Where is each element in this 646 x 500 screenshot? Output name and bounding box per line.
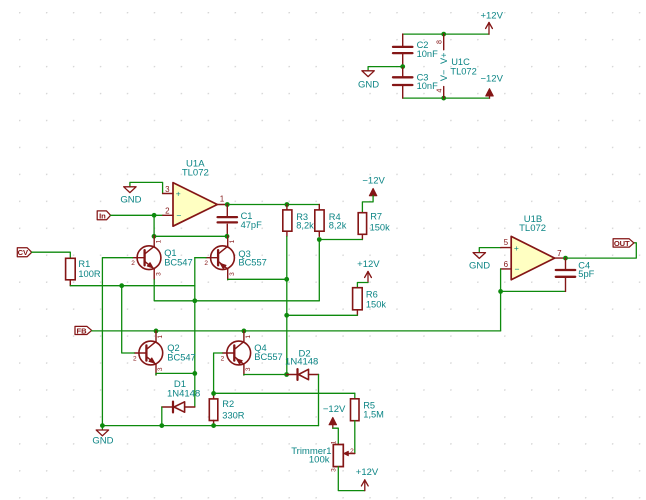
junction Q2 emitter D1 (192, 371, 197, 376)
junction R2 bottom (211, 423, 216, 428)
port OUT (613, 239, 634, 248)
svg-text:TL072: TL072 (450, 66, 476, 76)
junction collector rail right (225, 234, 230, 239)
wire R6 bottom (287, 314, 358, 316)
pin 7 U1B (555, 249, 564, 258)
resistor R1 (66, 258, 76, 285)
svg-text:3: 3 (245, 367, 252, 371)
junction U1B pin6 C4 (498, 289, 503, 294)
pin 1 Q3 (229, 239, 236, 243)
svg-text:1: 1 (157, 335, 164, 339)
svg-text:BC547: BC547 (164, 258, 192, 268)
svg-text:2: 2 (221, 355, 225, 362)
wire In-node down (153, 215, 155, 236)
wire Q3 base leg (195, 258, 206, 407)
wire R4-R7 bottom (319, 239, 362, 241)
pin 6 U1B (501, 260, 520, 274)
svg-text:OUT: OUT (614, 239, 630, 248)
wire Q1 base to ground rail (102, 258, 132, 426)
svg-text:GND: GND (120, 195, 141, 206)
pin 1 Trimmer1 (330, 440, 337, 444)
wire trimmer to +12V (338, 467, 365, 491)
wire U1B output (564, 243, 636, 258)
svg-text:5: 5 (504, 238, 509, 247)
svg-text:8,2k: 8,2k (296, 220, 314, 230)
label U1B (519, 214, 546, 234)
label Q3 (238, 249, 266, 268)
junction R6 bottom (284, 313, 289, 318)
wire -12V to R7 (362, 196, 373, 213)
pin 1 Q2 (157, 335, 164, 339)
pin 2 Q3 (204, 260, 208, 267)
power -12V symbol R7 (362, 175, 385, 196)
label R3 (296, 212, 314, 230)
svg-text:+12V: +12V (356, 467, 379, 478)
capacitor C2 (393, 34, 412, 67)
wire D2 anode to ground rail (318, 375, 320, 426)
port FB (75, 326, 92, 335)
svg-text:3: 3 (165, 185, 170, 194)
diode D2 (287, 369, 319, 380)
junction Q3 emitter (284, 277, 289, 282)
op-amp U1B (511, 236, 554, 279)
svg-text:V−: V− (439, 70, 449, 82)
junction Q4 emitter D2 (284, 372, 289, 377)
capacitor C4 (556, 258, 575, 291)
svg-text:GND: GND (469, 260, 490, 271)
pin 2 Q2 (133, 355, 137, 362)
svg-text:+12V: +12V (357, 259, 380, 270)
label R7 (370, 211, 391, 232)
label Q1 (164, 248, 192, 268)
svg-text:1,5M: 1,5M (363, 410, 384, 420)
svg-text:330R: 330R (222, 410, 245, 420)
svg-text:R1: R1 (78, 259, 90, 269)
pin 3 Q3 (229, 272, 236, 276)
power -12V symbol trimmer (323, 404, 346, 428)
label C4 (578, 260, 594, 279)
power +12V symbol trimmer (356, 467, 379, 491)
ground GND U1A pin3 (120, 182, 162, 205)
junction R4 bottom (317, 237, 322, 242)
pin 1 U1A (217, 195, 226, 205)
label Trimmer1 (291, 446, 331, 466)
power -12V symbol top (480, 74, 503, 99)
svg-text:R6: R6 (366, 289, 378, 299)
label R6 (366, 289, 387, 309)
wire Q1 emitter down (154, 280, 319, 301)
wire R2 to R5 (214, 392, 355, 394)
svg-text:−12V: −12V (323, 404, 346, 415)
resistor R2 (209, 393, 218, 425)
label U1C (450, 57, 476, 76)
label R1 (78, 259, 101, 279)
wire CV to R1 (32, 252, 71, 258)
wire -12V to trimmer (333, 428, 339, 444)
label R5 (363, 401, 384, 420)
svg-text:6: 6 (504, 260, 509, 269)
label C1 (241, 211, 263, 230)
wire C4 bottom (501, 290, 566, 292)
svg-text:100k: 100k (309, 455, 330, 466)
pin name V- U1C (439, 70, 449, 82)
junction D1 ground (159, 423, 164, 428)
wire -12V bottom rail (403, 97, 490, 99)
svg-text:TL072: TL072 (182, 168, 209, 179)
svg-text:Q2: Q2 (167, 343, 179, 353)
resistor R4 (315, 205, 324, 237)
label Q4 (254, 343, 282, 362)
svg-text:1N4148: 1N4148 (285, 357, 318, 368)
junction R2 top (211, 391, 216, 396)
junction In-node (152, 213, 157, 218)
transistor Q2 (134, 331, 162, 375)
resistor R7 (358, 213, 366, 240)
wire +12V top rail (403, 33, 489, 35)
svg-text:150k: 150k (370, 223, 391, 233)
svg-text:100R: 100R (78, 269, 101, 279)
pin 2 Trimmer1 (350, 448, 354, 455)
wire Q2 emitter (156, 373, 195, 375)
svg-text:−12V: −12V (362, 175, 385, 186)
svg-text:R7: R7 (370, 211, 382, 221)
wire collector rail (154, 235, 227, 237)
transistor Q3 (206, 236, 234, 280)
svg-text:−: − (176, 210, 181, 220)
svg-text:V+: V+ (439, 53, 449, 65)
op-amp U1C power pin 4 (435, 87, 444, 99)
resistor R6 (353, 288, 363, 316)
label C2 (417, 40, 439, 59)
svg-text:1: 1 (220, 195, 225, 204)
junction C2-C3-GND (400, 64, 405, 69)
junction bottom rail pin4 (441, 96, 446, 101)
svg-text:BC557: BC557 (254, 352, 282, 362)
capacitor C1 (218, 205, 237, 237)
svg-text:1: 1 (330, 440, 337, 444)
svg-text:BC547: BC547 (167, 353, 195, 363)
label D1 (167, 379, 200, 400)
wire +12V to R6 (357, 283, 368, 288)
label R2 (222, 399, 245, 420)
wire ground rail bottom (102, 425, 318, 427)
label D2 (285, 349, 318, 368)
svg-text:1N4148: 1N4148 (167, 389, 200, 400)
pin 3 Q4 (245, 367, 252, 371)
transistor Q4 (222, 331, 250, 375)
svg-text:47pF: 47pF (241, 220, 263, 230)
ground GND top section (358, 71, 379, 91)
svg-text:8: 8 (435, 40, 444, 44)
op-amp U1C power pin 8 (435, 34, 444, 50)
pin 3 U1A (163, 185, 181, 199)
svg-text:+12V: +12V (480, 10, 503, 21)
svg-text:GND: GND (92, 435, 113, 446)
svg-text:−12V: −12V (480, 74, 503, 85)
ground GND U1B pin5 (469, 248, 501, 272)
wire Q4 emitter (244, 374, 287, 377)
wire U1A output (226, 204, 319, 206)
junction Q3 base leg (192, 298, 197, 303)
op-amp U1A (173, 183, 217, 227)
power +12V symbol top (480, 10, 503, 34)
wire R4 node down (318, 240, 320, 301)
svg-text:R2: R2 (222, 399, 234, 409)
svg-text:TL072: TL072 (519, 223, 546, 234)
port CV (17, 248, 31, 257)
wire Q2 collector (155, 330, 157, 332)
svg-text:CV: CV (18, 248, 29, 257)
svg-text:150k: 150k (366, 299, 387, 309)
svg-text:Q1: Q1 (164, 248, 176, 258)
wire Q4 base (214, 353, 223, 393)
pin 5 U1B (501, 238, 519, 253)
svg-text:BC557: BC557 (238, 257, 266, 267)
wire D1 cathode to ground rail (161, 407, 163, 426)
resistor R3 (283, 205, 292, 237)
wire U1B pin6 node (500, 269, 502, 331)
wire FB (92, 330, 501, 332)
svg-text:2: 2 (131, 260, 135, 267)
junction top rail pin8 (441, 32, 446, 37)
svg-text:2: 2 (204, 260, 208, 267)
junction U1B output (563, 256, 568, 261)
wire Q3 emitter (228, 278, 287, 280)
pin 2 Q4 (221, 355, 225, 362)
svg-text:+: + (176, 189, 181, 199)
power +12V symbol R6 (357, 259, 380, 283)
junction collector rail left (152, 234, 157, 239)
svg-text:−: − (515, 264, 520, 274)
junction Q2 collector (154, 329, 159, 334)
svg-text:2: 2 (350, 448, 354, 455)
svg-text:8,2k: 8,2k (329, 220, 347, 230)
svg-text:FB: FB (77, 326, 88, 335)
wire In to pin2 (111, 214, 163, 216)
svg-text:4: 4 (435, 89, 444, 93)
junction ground rail left (100, 423, 105, 428)
junction R3 top (285, 202, 290, 207)
svg-text:In: In (99, 211, 106, 220)
svg-text:7: 7 (557, 249, 562, 258)
transistor Q1 (133, 236, 161, 280)
svg-text:2: 2 (133, 355, 137, 362)
wire R3 bottom chain (286, 236, 288, 374)
port In (97, 211, 110, 220)
svg-text:1: 1 (245, 335, 252, 339)
diode D1 (162, 402, 195, 413)
svg-text:2: 2 (165, 206, 170, 215)
label U1A (182, 159, 209, 179)
junction U1A output (225, 202, 230, 207)
wire R1 bottom to Q3 base (70, 285, 195, 287)
pin 1 Q4 (245, 335, 252, 339)
svg-text:5pF: 5pF (578, 269, 594, 279)
svg-text:3: 3 (157, 367, 164, 371)
svg-text:+: + (514, 243, 519, 253)
ground GND bottom (92, 426, 113, 447)
pin 3 Q2 (157, 367, 164, 371)
junction Q4 collector (242, 329, 247, 334)
svg-text:3: 3 (330, 468, 337, 472)
label C3 (417, 72, 439, 91)
label R4 (329, 212, 347, 230)
svg-text:GND: GND (358, 80, 379, 91)
svg-text:3: 3 (229, 272, 236, 276)
pin 2 U1A (163, 206, 182, 220)
trimmer Trimmer1 (333, 445, 355, 467)
pin 2 Q1 (131, 260, 135, 267)
capacitor C3 (393, 67, 412, 99)
pin name V+ U1C (439, 53, 449, 65)
resistor R5 (351, 393, 360, 453)
junction R1-Q2 base (119, 283, 124, 288)
svg-text:3: 3 (155, 272, 162, 276)
svg-text:1: 1 (229, 239, 236, 243)
svg-text:1: 1 (155, 239, 162, 243)
wire Q2 base (122, 286, 135, 353)
label Q2 (167, 343, 195, 363)
svg-text:10nF: 10nF (417, 49, 439, 59)
pin 3 Q1 (155, 272, 162, 276)
pin 1 Q1 (155, 239, 162, 243)
pin 3 Trimmer1 (330, 468, 337, 472)
wire GND top section (368, 67, 403, 71)
